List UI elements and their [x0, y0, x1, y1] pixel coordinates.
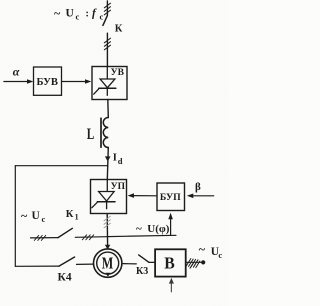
svg-text::: :	[86, 9, 89, 20]
svg-text:БУП: БУП	[160, 193, 181, 203]
svg-text:β: β	[195, 181, 201, 193]
wire: L down to УП	[107, 148, 108, 180]
block УВ (controlled rectifier)	[92, 67, 127, 100]
block УП (thyristor converter)	[91, 180, 127, 214]
supply terminal dot	[201, 260, 205, 264]
current arrow Id	[105, 156, 111, 161]
wire: УП down to motor	[106, 214, 108, 246]
label К1	[66, 209, 79, 221]
wire: K1 branch left segment	[31, 237, 59, 239]
svg-text:В: В	[164, 254, 175, 273]
arrow β into БУП	[191, 195, 214, 197]
svg-text:c: c	[76, 12, 80, 22]
hatch marks on K1 wire (right)	[82, 235, 93, 240]
svg-text:L: L	[87, 126, 95, 143]
arrow α into БУВ	[4, 81, 29, 83]
label Id	[113, 153, 123, 166]
wire: horizontal branch to left rail	[15, 165, 108, 167]
svg-text:К4: К4	[58, 272, 72, 284]
wire: В right supply lead	[186, 261, 201, 263]
motor M inner circle	[97, 252, 119, 274]
switch K1 blade (open)	[58, 228, 72, 237]
hatch marks on В supply lead	[186, 259, 200, 269]
svg-text:I: I	[113, 153, 117, 164]
wire: К3 to В	[149, 261, 155, 263]
thyristor symbol inside УП	[92, 180, 115, 209]
wire: K4 branch from left rail	[15, 265, 59, 267]
hatch marks on K1 wire (left)	[34, 235, 45, 240]
label ~Uc (left supply)	[21, 209, 46, 225]
core bar of L	[100, 118, 102, 147]
inductor L (smoothing reactor)	[103, 118, 108, 148]
block БУП (converter control unit)	[157, 183, 185, 211]
block БУВ (rectifier control unit)	[34, 67, 62, 95]
three-phase hatch marks below switch K	[104, 38, 110, 50]
block В (exciter)	[155, 249, 186, 276]
wire riser with arrow into БУП bottom	[170, 217, 172, 235]
background paper	[0, 0, 228, 306]
svg-text:U: U	[66, 8, 75, 20]
svg-text:К3: К3	[136, 266, 148, 277]
three-phase hatch marks on top feeder	[104, 3, 110, 15]
thyristor symbol inside УВ	[94, 67, 116, 96]
wire: УВ to smoothing reactor L	[107, 100, 110, 118]
svg-text:c: c	[218, 250, 222, 260]
switch К3 blade (open)	[139, 255, 149, 262]
wire: top feeder above switch K	[106, 1, 108, 16]
svg-text:1: 1	[75, 212, 79, 221]
label ~U(φ) (synchronizing voltage)	[136, 223, 170, 235]
label ~Uc·fc (supply voltage and frequency)	[54, 6, 104, 22]
svg-text:М: М	[102, 254, 114, 273]
svg-text:УВ: УВ	[111, 68, 125, 78]
label ~Uc (right supply)	[199, 242, 223, 260]
svg-text:БУВ: БУВ	[37, 77, 59, 88]
arrow into В bottom	[170, 283, 172, 292]
switch K4 blade (open)	[59, 257, 75, 266]
svg-text:К: К	[66, 209, 74, 220]
brush mark at motor bottom	[105, 273, 110, 277]
svg-text:c: c	[100, 12, 104, 22]
svg-text:d: d	[118, 156, 123, 166]
wire: K4 to motor	[77, 263, 94, 265]
arrow head at motor input	[105, 245, 110, 250]
arrow БУП to УП	[132, 195, 158, 197]
svg-text:~: ~	[54, 6, 61, 20]
svg-text:α: α	[13, 65, 20, 79]
svg-text:~: ~	[199, 242, 206, 256]
svg-text:~: ~	[136, 223, 142, 235]
faded hatch marks below УП	[104, 216, 110, 228]
svg-text:U(φ): U(φ)	[147, 223, 169, 235]
arrow БУВ to УВ	[62, 81, 88, 83]
wire: K1 branch right segment	[75, 236, 107, 239]
svg-text:~: ~	[21, 209, 28, 223]
svg-text:УП: УП	[111, 182, 126, 192]
svg-text:U: U	[32, 210, 41, 222]
wire: left vertical rail	[14, 166, 16, 267]
motor M outer circle	[94, 249, 122, 277]
wire: motor to К3	[122, 263, 136, 265]
wire: switch K to УВ	[106, 33, 108, 66]
wire ~U(φ) tap from motor feeder	[107, 235, 176, 236]
svg-text:c: c	[42, 214, 46, 224]
switch K blade (open)	[103, 16, 108, 26]
svg-text:К: К	[115, 24, 123, 35]
